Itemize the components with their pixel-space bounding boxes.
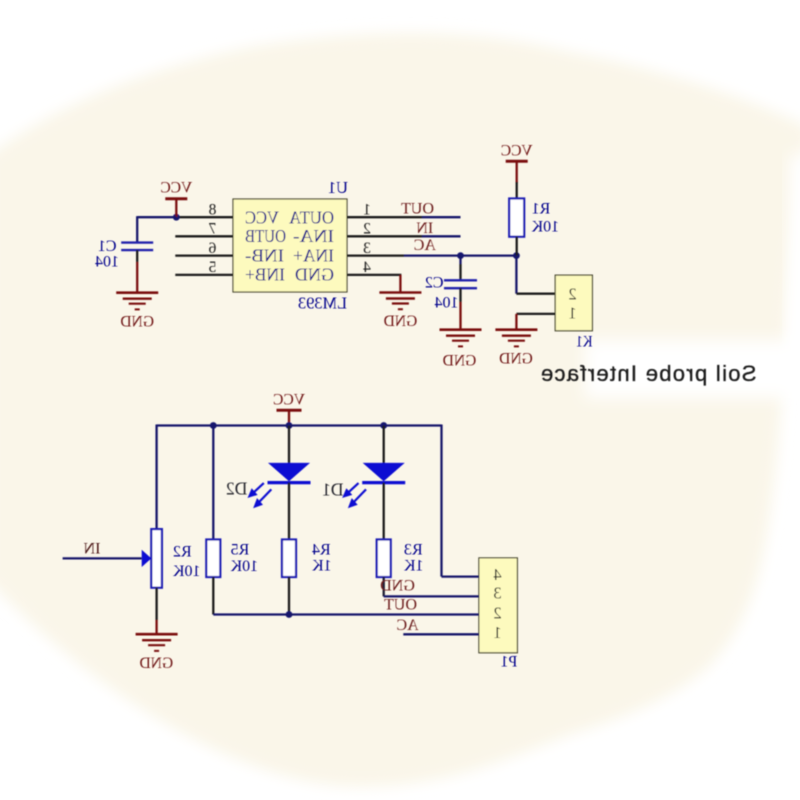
wire VCC node to C1: [137, 216, 176, 218]
svg-text:VCC: VCC: [273, 392, 305, 409]
wire K1 pin 1: [516, 313, 555, 315]
node junction at C2 tap: [457, 252, 464, 259]
wire C1 lead to ground: [136, 262, 138, 293]
svg-text:R4: R4: [312, 542, 331, 559]
svg-text:INB-: INB-: [245, 246, 284, 266]
svg-text:GND: GND: [140, 655, 174, 672]
svg-text:R5: R5: [231, 542, 250, 559]
R2 bottom pin: [155, 588, 157, 620]
wire P1 pin 3 GND net: [384, 595, 479, 597]
svg-text:D2: D2: [226, 479, 247, 499]
R5 bottom pin: [212, 577, 214, 615]
svg-text:C1: C1: [98, 238, 117, 255]
U1 pin 7: [175, 235, 233, 237]
svg-text:2: 2: [493, 604, 501, 623]
R4 bottom pin: [288, 577, 290, 615]
svg-text:GND: GND: [443, 353, 477, 370]
svg-text:LM393: LM393: [298, 294, 347, 313]
wire P1 pin 1 AC stub: [403, 633, 479, 635]
node junction at R1 bottom: [513, 252, 520, 259]
R1 bottom pin: [516, 237, 518, 256]
svg-text:VCC: VCC: [245, 207, 279, 227]
wire D2 top lead: [288, 426, 290, 464]
U1 pin 2: [347, 235, 422, 237]
node junction R4 bottom: [286, 611, 293, 618]
resistor R5: [206, 540, 220, 578]
svg-text:2: 2: [363, 221, 371, 238]
resistor R4: [282, 540, 296, 578]
power VCC top-left: [160, 179, 192, 217]
LED D2: [268, 463, 311, 483]
pin C2 top: [459, 264, 461, 280]
svg-text:C2: C2: [425, 275, 444, 292]
resistor R1: [509, 199, 524, 237]
svg-text:2: 2: [568, 285, 576, 304]
ground for C2: [440, 330, 482, 347]
svg-text:6: 6: [208, 240, 216, 257]
svg-text:INA+: INA+: [293, 246, 334, 266]
svg-text:GND: GND: [295, 265, 334, 285]
connector K1 body: [555, 275, 592, 331]
wire C2 bottom lead: [459, 288, 461, 302]
power VCC above R1: [501, 143, 533, 184]
ground for K1: [495, 330, 537, 347]
node VCC junction near C1: [173, 214, 180, 221]
wire P1 pin4 riser to rail: [440, 425, 442, 577]
svg-text:OUT: OUT: [401, 201, 434, 218]
wire IN: [63, 557, 142, 559]
svg-text:GND: GND: [120, 314, 154, 331]
node junction rail at D2: [286, 422, 293, 429]
svg-text:10K: 10K: [531, 219, 559, 236]
svg-text:AC: AC: [414, 237, 436, 254]
svg-text:IN: IN: [83, 541, 100, 558]
svg-text:1: 1: [493, 623, 501, 642]
glare white band behind title: [585, 340, 800, 398]
U1 pin 4: [347, 274, 401, 276]
node junction rail at D1: [380, 422, 387, 429]
svg-text:10K: 10K: [172, 563, 200, 580]
svg-text:VCC: VCC: [501, 143, 533, 160]
svg-text:4: 4: [493, 565, 501, 584]
wire D1 top lead: [383, 426, 385, 464]
potentiometer R2: [151, 529, 162, 588]
svg-text:3: 3: [493, 584, 501, 603]
D2 arrow 2: [254, 489, 271, 507]
svg-text:U1: U1: [328, 178, 348, 197]
svg-text:OUT: OUT: [384, 597, 417, 614]
ground for R2: [136, 634, 178, 651]
wire C2 top lead: [459, 256, 461, 264]
svg-text:K1: K1: [576, 334, 593, 351]
wire P1 pin 4: [442, 575, 479, 577]
svg-text:OUTA: OUTA: [289, 207, 334, 227]
wire D2 bottom lead: [288, 483, 290, 540]
wire U1 pin4 to ground: [399, 275, 401, 293]
ground for U1 pin4: [379, 293, 421, 310]
capacitor C2: [444, 280, 477, 288]
svg-text:7: 7: [208, 221, 216, 238]
svg-text:GND: GND: [384, 313, 418, 330]
wire R1 node down to K1 pin2: [515, 256, 517, 294]
D2 arrow 1: [248, 483, 263, 497]
LED D1: [362, 463, 405, 483]
SCHEMATIC (drawn unmirrored; whole group is flipped horizontally): [63, 143, 757, 673]
power VCC bottom: [273, 392, 305, 426]
right edge glare: [790, 155, 800, 360]
U1 pin 8: [175, 216, 233, 218]
wire to K1 pin 2: [516, 293, 555, 295]
R2 wiper arrow: [142, 550, 152, 567]
connector P1 body: [479, 558, 518, 653]
svg-text:R2: R2: [173, 544, 192, 561]
svg-text:D1: D1: [322, 480, 343, 500]
capacitor C1: [121, 243, 153, 251]
wire K1 pin1 to ground: [515, 314, 517, 330]
wire R5 top lead: [212, 426, 214, 540]
D1 arrow 2: [349, 489, 366, 507]
U1 pin 6: [175, 254, 233, 256]
svg-text:VCC: VCC: [160, 179, 192, 196]
wire C2 lead to ground: [459, 302, 461, 330]
R1 top pin: [516, 182, 518, 199]
wire OUT net: [422, 216, 461, 218]
resistor R3: [377, 540, 391, 578]
op-amp U1 LM393 body: [233, 199, 347, 292]
wire VCC rail: [157, 424, 442, 426]
svg-text:4: 4: [363, 259, 371, 276]
U1 pin 5: [175, 274, 233, 276]
wire R2 to ground: [155, 620, 157, 635]
node junction rail at R5: [210, 422, 217, 429]
U1 pin 3: [347, 254, 404, 256]
svg-text:INA-: INA-: [293, 226, 334, 246]
svg-text:10K: 10K: [230, 558, 258, 575]
svg-text:R3: R3: [404, 542, 423, 559]
wire D1 bottom lead: [383, 483, 385, 540]
svg-text:1: 1: [363, 202, 371, 219]
svg-text:IN: IN: [416, 220, 433, 237]
svg-text:Soil probe Interface: Soil probe Interface: [540, 361, 757, 386]
svg-text:5: 5: [208, 259, 216, 276]
wire IN net: [422, 235, 461, 237]
svg-text:1: 1: [568, 304, 576, 323]
svg-text:104: 104: [435, 295, 459, 312]
ground for C1: [116, 293, 158, 310]
svg-text:104: 104: [95, 254, 119, 271]
svg-text:3: 3: [363, 240, 371, 257]
svg-text:1K: 1K: [312, 558, 332, 575]
wire C1 bottom lead: [136, 250, 138, 262]
R3 bottom pin: [383, 577, 385, 596]
U1 pin 1: [347, 216, 422, 218]
svg-text:P1: P1: [500, 654, 517, 671]
wire P1 pin 2 OUT net: [213, 613, 479, 615]
svg-text:1K: 1K: [403, 558, 423, 575]
svg-text:GND: GND: [380, 577, 415, 594]
svg-text:R1: R1: [532, 201, 551, 218]
D1 arrow 1: [343, 483, 358, 497]
svg-text:OUTB: OUTB: [245, 226, 286, 246]
svg-text:GND: GND: [499, 351, 533, 368]
wire R2 top lead: [155, 425, 157, 530]
wire C1 top lead: [136, 216, 138, 242]
svg-text:AC: AC: [396, 617, 418, 634]
svg-text:INB+: INB+: [245, 265, 285, 285]
wire AC net horizontal: [404, 254, 516, 256]
svg-text:8: 8: [208, 202, 216, 219]
